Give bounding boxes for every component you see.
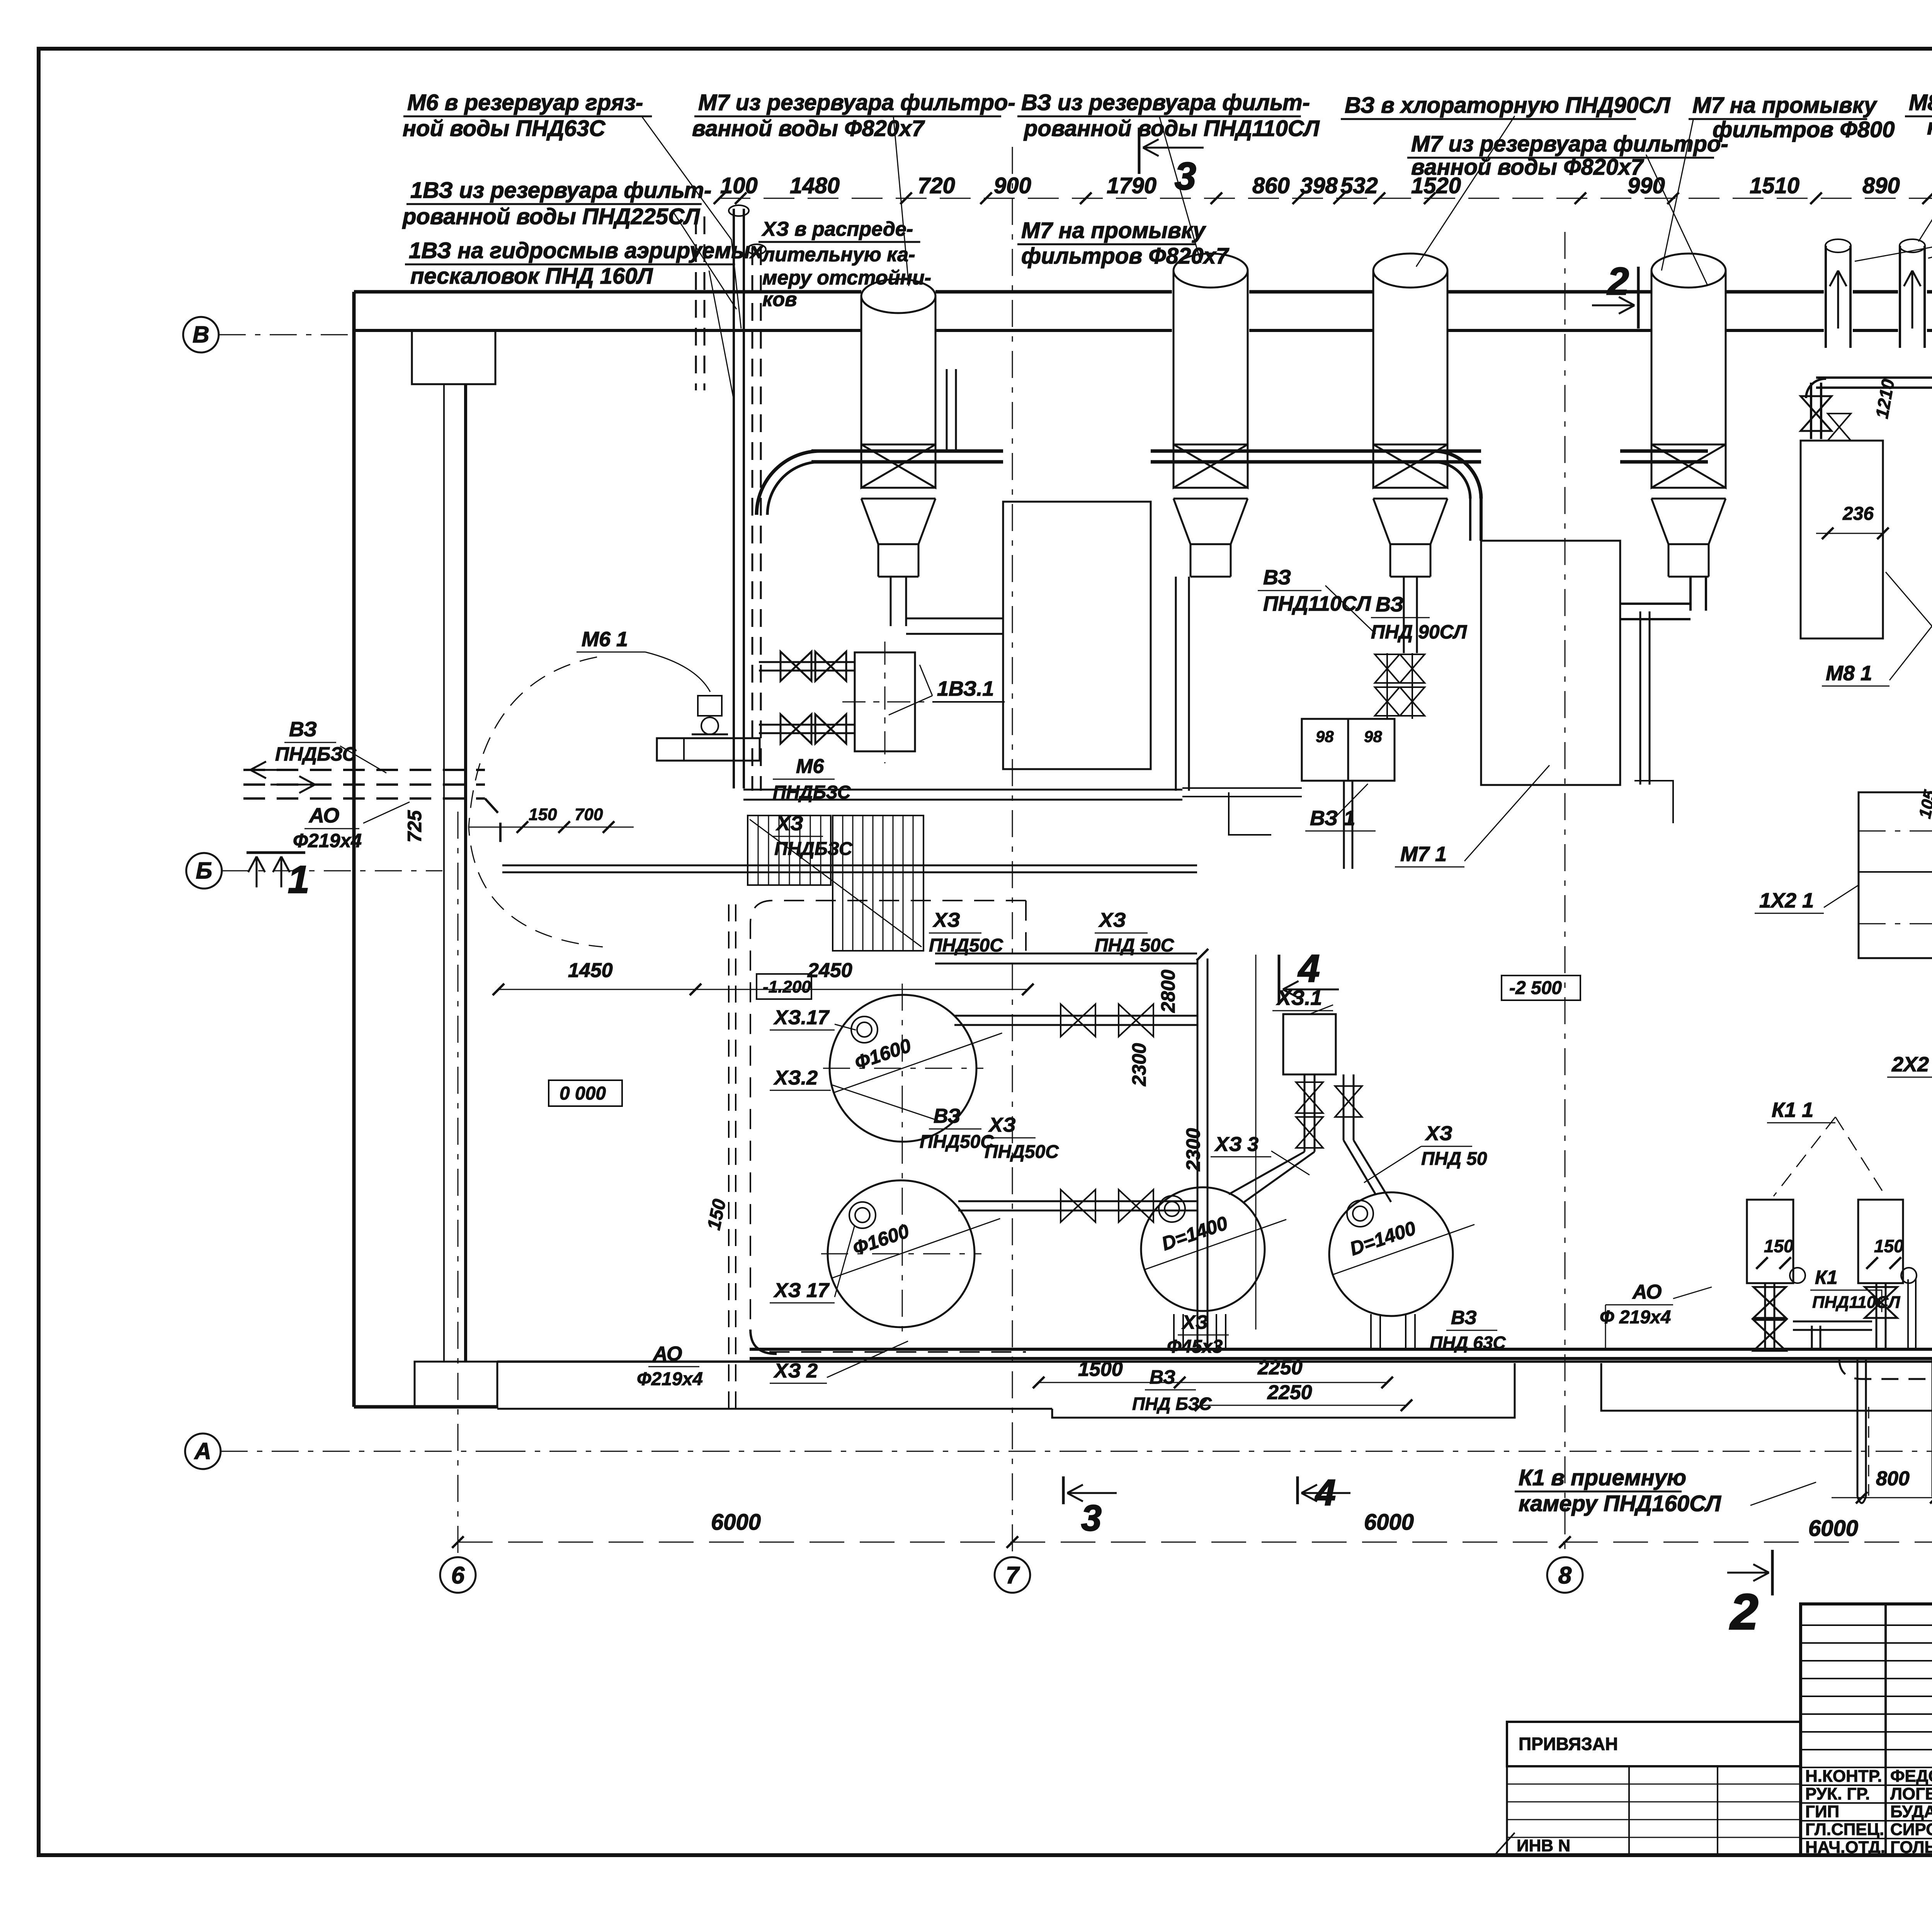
- svg-text:2: 2: [1729, 1583, 1758, 1640]
- svg-text:рованной воды ПНД225СЛ: рованной воды ПНД225СЛ: [402, 204, 700, 229]
- svg-text:М6 в резервуар гряз-: М6 в резервуар гряз-: [407, 90, 643, 115]
- svg-text:РУК. ГР.: РУК. ГР.: [1805, 1784, 1870, 1803]
- svg-text:725: 725: [404, 810, 425, 843]
- svg-text:1ВЗ из резервуара фильт-: 1ВЗ из резервуара фильт-: [410, 178, 711, 203]
- svg-text:М6: М6: [796, 755, 824, 778]
- svg-text:ПНДБЗС: ПНДБЗС: [275, 743, 357, 765]
- svg-text:М7 на промывку: М7 на промывку: [1021, 218, 1206, 243]
- svg-text:1510: 1510: [1750, 173, 1799, 198]
- svg-text:ПНДБЗС: ПНДБЗС: [773, 782, 851, 803]
- svg-text:4: 4: [1298, 947, 1320, 990]
- svg-text:К1: К1: [1815, 1267, 1838, 1288]
- svg-text:150: 150: [1874, 1236, 1904, 1256]
- svg-text:ПНД 50С: ПНД 50С: [1095, 935, 1175, 956]
- svg-text:Н.КОНТР.: Н.КОНТР.: [1805, 1767, 1882, 1786]
- svg-text:1450: 1450: [568, 959, 613, 982]
- svg-text:Ф45х3: Ф45х3: [1167, 1336, 1223, 1357]
- svg-text:98: 98: [1364, 727, 1382, 746]
- svg-text:8: 8: [1558, 1562, 1572, 1589]
- svg-text:ФЕДОРОВА: ФЕДОРОВА: [1890, 1767, 1932, 1786]
- svg-text:ВЗ: ВЗ: [1150, 1366, 1175, 1388]
- svg-text:6000: 6000: [1808, 1516, 1858, 1541]
- svg-text:ПНД 50: ПНД 50: [1421, 1149, 1487, 1169]
- svg-text:ХЗ 17: ХЗ 17: [773, 1279, 830, 1302]
- svg-text:1Х2 1: 1Х2 1: [1759, 889, 1814, 912]
- svg-text:ХЗ в распреде-: ХЗ в распреде-: [761, 218, 913, 240]
- svg-text:6000: 6000: [711, 1510, 761, 1535]
- svg-text:ВЗ: ВЗ: [289, 718, 317, 741]
- svg-text:2: 2: [1607, 260, 1629, 303]
- svg-text:ПНД110СЛ: ПНД110СЛ: [1812, 1293, 1900, 1312]
- svg-text:ной воды ПНД63С: ной воды ПНД63С: [403, 116, 606, 141]
- svg-text:4: 4: [1315, 1472, 1336, 1513]
- svg-text:ПНД50С: ПНД50С: [929, 935, 1003, 956]
- svg-text:-1.200: -1.200: [763, 977, 811, 996]
- svg-text:860: 860: [1252, 173, 1290, 198]
- svg-text:меру отстойни-: меру отстойни-: [762, 267, 931, 289]
- svg-text:700: 700: [575, 805, 603, 824]
- svg-text:ХЗ: ХЗ: [1098, 909, 1126, 931]
- svg-text:В: В: [192, 322, 209, 347]
- svg-text:ГИП: ГИП: [1805, 1802, 1839, 1821]
- svg-text:ЛОГВИНСКАЯ: ЛОГВИНСКАЯ: [1890, 1784, 1932, 1803]
- svg-text:532: 532: [1340, 173, 1378, 198]
- svg-text:М8 1: М8 1: [1826, 662, 1872, 685]
- svg-text:К1 в приемную: К1 в приемную: [1519, 1465, 1686, 1490]
- svg-text:ПНД50С: ПНД50С: [985, 1142, 1059, 1162]
- svg-text:ВЗ 1: ВЗ 1: [1310, 807, 1355, 830]
- svg-text:ХЗ: ХЗ: [1425, 1122, 1452, 1145]
- svg-text:ВЗ в хлораторную ПНД90СЛ: ВЗ в хлораторную ПНД90СЛ: [1345, 93, 1671, 118]
- svg-text:Ф219х4: Ф219х4: [637, 1369, 703, 1389]
- svg-text:7: 7: [1006, 1562, 1020, 1589]
- svg-text:АО: АО: [652, 1343, 682, 1365]
- svg-text:1: 1: [288, 858, 310, 901]
- svg-text:М7 из резервуара фильтро-: М7 из резервуара фильтро-: [698, 90, 1015, 115]
- svg-text:1ВЗ.1: 1ВЗ.1: [937, 677, 994, 700]
- svg-text:ванной воды Ф820х7: ванной воды Ф820х7: [692, 116, 925, 141]
- svg-text:ИНВ N: ИНВ N: [1517, 1836, 1570, 1855]
- svg-text:ХЗ: ХЗ: [932, 909, 960, 931]
- svg-text:900: 900: [994, 173, 1031, 198]
- svg-text:236: 236: [1842, 504, 1874, 524]
- svg-text:2250: 2250: [1267, 1381, 1312, 1404]
- svg-text:Ф219х4: Ф219х4: [293, 830, 362, 851]
- svg-text:ванной воды Ф820х7: ванной воды Ф820х7: [1411, 155, 1644, 180]
- svg-text:3: 3: [1081, 1498, 1102, 1539]
- svg-text:А: А: [194, 1438, 211, 1464]
- svg-text:ВЗ: ВЗ: [934, 1105, 961, 1127]
- svg-text:ХЗ.17: ХЗ.17: [773, 1006, 830, 1029]
- svg-text:М6 1: М6 1: [582, 628, 628, 651]
- svg-text:Ф 219х4: Ф 219х4: [1600, 1307, 1671, 1328]
- svg-text:2450: 2450: [807, 959, 852, 982]
- svg-text:890: 890: [1862, 173, 1900, 198]
- svg-text:ВЗ: ВЗ: [1263, 566, 1291, 589]
- svg-text:ВЗ: ВЗ: [1451, 1307, 1477, 1328]
- svg-text:фильтров Ф820х7: фильтров Ф820х7: [1021, 243, 1230, 269]
- svg-text:К1 1: К1 1: [1772, 1098, 1813, 1122]
- svg-text:150: 150: [1764, 1236, 1794, 1256]
- svg-text:100: 100: [720, 173, 758, 198]
- svg-text:пескаловок ПНД 160Л: пескаловок ПНД 160Л: [410, 264, 653, 289]
- svg-text:1790: 1790: [1107, 173, 1156, 198]
- svg-text:150: 150: [529, 805, 557, 824]
- svg-text:камеру ПНД160СЛ: камеру ПНД160СЛ: [1519, 1491, 1721, 1516]
- svg-text:лительную ка-: лительную ка-: [761, 243, 915, 266]
- svg-text:Б: Б: [196, 858, 212, 884]
- svg-text:М7 на промывку: М7 на промывку: [1692, 93, 1878, 118]
- svg-text:ХЗ 3: ХЗ 3: [1214, 1133, 1259, 1156]
- svg-text:ХЗ 2: ХЗ 2: [773, 1360, 818, 1382]
- svg-text:ХЗ.1: ХЗ.1: [1276, 986, 1322, 1010]
- svg-text:ПНДБЗС: ПНДБЗС: [774, 839, 853, 859]
- svg-text:камеру Ф273х4: камеру Ф273х4: [1927, 114, 1932, 140]
- svg-text:2Х2 1: 2Х2 1: [1891, 1053, 1932, 1076]
- svg-text:М8 в приемную: М8 в приемную: [1909, 90, 1932, 115]
- svg-text:ПНД110СЛ: ПНД110СЛ: [1263, 592, 1372, 615]
- svg-text:НАЧ.ОТД.: НАЧ.ОТД.: [1805, 1838, 1885, 1857]
- svg-text:800: 800: [1876, 1468, 1910, 1490]
- svg-text:2800: 2800: [1157, 970, 1179, 1013]
- svg-text:1ВЗ на гидросмыв аэрируемых: 1ВЗ на гидросмыв аэрируемых: [409, 238, 764, 263]
- svg-text:3: 3: [1175, 155, 1196, 198]
- svg-text:ПНД50С: ПНД50С: [920, 1132, 994, 1152]
- svg-text:-2 500: -2 500: [1509, 978, 1562, 998]
- svg-text:М7 из резервуара фильтро-: М7 из резервуара фильтро-: [1411, 131, 1728, 157]
- svg-text:6000: 6000: [1364, 1510, 1414, 1535]
- svg-text:рованной воды ПНД110СЛ: рованной воды ПНД110СЛ: [1023, 116, 1320, 141]
- svg-text:6: 6: [451, 1562, 465, 1589]
- svg-text:ГЛ.СПЕЦ.: ГЛ.СПЕЦ.: [1805, 1820, 1884, 1839]
- svg-text:2300: 2300: [1182, 1128, 1204, 1171]
- svg-text:АО: АО: [308, 804, 339, 827]
- svg-text:ПНД 90СЛ: ПНД 90СЛ: [1371, 621, 1468, 643]
- svg-text:АО: АО: [1632, 1281, 1662, 1303]
- svg-text:0 000: 0 000: [560, 1083, 606, 1104]
- svg-text:1500: 1500: [1078, 1358, 1123, 1381]
- svg-text:фильтров Ф800: фильтров Ф800: [1713, 117, 1895, 142]
- svg-text:1480: 1480: [790, 173, 840, 198]
- svg-text:ГОЛЬДМАН: ГОЛЬДМАН: [1890, 1838, 1932, 1857]
- svg-text:98: 98: [1316, 727, 1334, 746]
- svg-text:ПНД БЗС: ПНД БЗС: [1132, 1394, 1212, 1414]
- svg-text:ВЗ из резервуара фильт-: ВЗ из резервуара фильт-: [1021, 90, 1310, 115]
- svg-text:ПРИВЯЗАН: ПРИВЯЗАН: [1519, 1734, 1618, 1754]
- svg-text:2300: 2300: [1128, 1043, 1150, 1086]
- svg-text:ХЗ.2: ХЗ.2: [773, 1067, 818, 1089]
- svg-text:М7 1: М7 1: [1400, 843, 1447, 866]
- svg-text:398: 398: [1300, 173, 1338, 198]
- svg-text:720: 720: [918, 173, 955, 198]
- svg-text:ХЗ: ХЗ: [1181, 1311, 1208, 1333]
- svg-text:БУДАЕВА: БУДАЕВА: [1890, 1802, 1932, 1821]
- svg-text:СИРОТА: СИРОТА: [1890, 1820, 1932, 1839]
- svg-text:ВЗ: ВЗ: [1376, 593, 1403, 616]
